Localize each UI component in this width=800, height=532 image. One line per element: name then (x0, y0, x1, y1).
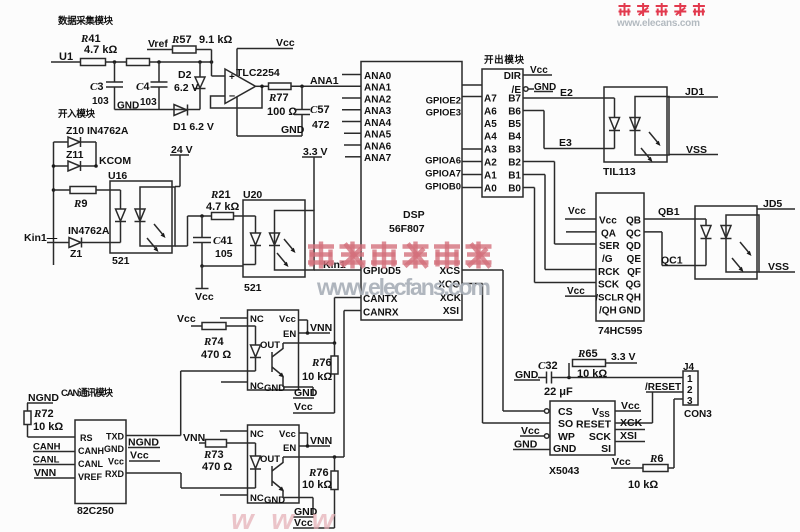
svg-text:开入模块: 开入模块 (58, 108, 95, 120)
wire TXD to opto1 cathode (126, 371, 181, 436)
pin A0 (484, 184, 497, 195)
wire feedback loop (211, 86, 263, 108)
node QB1 label (658, 206, 680, 218)
phototransistor U10 (272, 343, 284, 381)
node Vcc right (129, 450, 160, 462)
pin WP (558, 431, 575, 443)
pin 2 (687, 385, 693, 396)
resistor R76b label (302, 467, 332, 491)
svg-text:103: 103 (92, 96, 109, 107)
node Kin1 (24, 232, 58, 244)
pin QH (626, 293, 641, 304)
svg-text:IN4762A: IN4762A (68, 225, 110, 237)
wire GND path U11 (283, 498, 313, 516)
resistor R9 label (73, 198, 87, 210)
node VNN R73 (183, 432, 205, 444)
svg-text:DIR: DIR (504, 71, 522, 82)
op-amp U2 TLC2254 (225, 69, 256, 104)
node E3 label (559, 137, 572, 149)
svg-text:C57: C57 (310, 104, 330, 116)
pin /E (512, 85, 522, 96)
node Vref (147, 38, 173, 50)
pin A3 (484, 145, 497, 156)
wire GPIOA6 to A2 (462, 161, 482, 163)
svg-text:/QH: /QH (599, 305, 617, 316)
node Kin1 at DSP (323, 259, 346, 271)
wire B0 to SCK (523, 188, 596, 283)
svg-text:24 V: 24 V (171, 144, 193, 156)
node QC1 label (661, 255, 683, 267)
svg-text:Vcc: Vcc (521, 425, 540, 437)
optocoupler U20 arrows (277, 239, 296, 267)
svg-text:R74: R74 (203, 336, 224, 348)
wire Vcc-EN bracket U11 (299, 433, 330, 446)
optocoupler TIL113 LED1 (609, 98, 620, 149)
capacitor C3 label (90, 81, 109, 107)
node /RESET label (645, 382, 681, 393)
pin B1 (508, 171, 521, 182)
svg-text:GND: GND (553, 443, 577, 455)
pin SER (599, 241, 620, 252)
shift register U6 74HC595 body (596, 193, 644, 321)
svg-text:SCK: SCK (598, 280, 620, 291)
pin GPIOA6 (425, 156, 461, 167)
watermark center characters (308, 242, 492, 269)
pin GPIOE3 (426, 108, 461, 119)
diode D1 (174, 105, 188, 116)
svg-text:QD: QD (626, 241, 641, 252)
svg-text:GPIOE3: GPIOE3 (426, 108, 461, 119)
svg-text:NGND: NGND (128, 437, 159, 449)
resistor R73 (199, 440, 256, 448)
pin SCK (598, 280, 620, 291)
svg-text:A3: A3 (484, 145, 497, 156)
optocoupler U11 body (248, 425, 300, 503)
module label CAN通讯模块 (61, 387, 113, 399)
pin RCK (598, 267, 620, 278)
watchdog label X5043 (549, 465, 580, 477)
svg-text:开出模块: 开出模块 (484, 54, 524, 66)
wire op-amp ground (237, 97, 302, 136)
pin NC U10 top (250, 314, 264, 325)
node NGND right (128, 437, 160, 449)
pin Vss (592, 406, 610, 419)
power 3.3V label (611, 351, 636, 363)
svg-text:www: www (231, 504, 336, 532)
power Vcc R74 (177, 313, 202, 326)
wire CANRX (344, 311, 361, 458)
wire NC stub bottom U10 (221, 381, 248, 383)
pin OUT U10 (260, 340, 280, 351)
svg-text:Vcc: Vcc (108, 457, 124, 467)
capacitor C41 label (213, 235, 233, 260)
svg-text:NC: NC (250, 493, 264, 504)
pin /SCLR (596, 293, 625, 304)
svg-text:C41: C41 (213, 235, 233, 247)
wire GND path U10 (283, 381, 313, 396)
svg-text:D2: D2 (178, 69, 192, 81)
svg-text:10 kΩ: 10 kΩ (628, 479, 658, 491)
resistor R76b (331, 457, 338, 528)
svg-text:56F807: 56F807 (389, 223, 425, 235)
wire CANTX (335, 298, 362, 344)
svg-text:100 Ω: 100 Ω (267, 106, 297, 118)
svg-text:+: + (229, 72, 235, 83)
pin CS circle (544, 409, 549, 414)
ground label GND U10 (293, 387, 318, 399)
svg-text:A2: A2 (484, 158, 497, 169)
pin Vcc 82C250 (108, 457, 124, 467)
pin RXD (105, 469, 125, 479)
svg-text:OUT: OUT (260, 340, 280, 351)
wire R72 to RS (28, 436, 76, 438)
svg-text:XSI: XSI (620, 430, 637, 442)
pin QE (627, 254, 642, 265)
svg-text:3: 3 (687, 396, 693, 407)
svg-text:SCK: SCK (589, 431, 612, 443)
wire Z10-Z11 right (95, 142, 97, 166)
junction dot R21-C41 (200, 214, 204, 218)
resistor R76a label (302, 357, 332, 383)
svg-text:QC: QC (626, 228, 641, 239)
svg-text:VREF: VREF (78, 472, 103, 482)
svg-text:WP: WP (558, 431, 575, 443)
svg-text:R21: R21 (210, 189, 231, 201)
svg-text:Vcc: Vcc (130, 450, 149, 462)
pin A2 (484, 158, 497, 169)
resistor R41 label (80, 33, 117, 56)
svg-text:R76: R76 (311, 357, 332, 369)
svg-text:www.elecans.com: www.elecans.com (616, 18, 700, 29)
pin A4 (484, 132, 497, 143)
svg-text:10 kΩ: 10 kΩ (33, 421, 63, 433)
module label 开出模块 (484, 54, 524, 66)
svg-text:Vcc: Vcc (621, 400, 640, 412)
optocoupler TIL113 arrows (641, 132, 661, 162)
wire R57 to noninverting input (196, 50, 225, 77)
svg-text:ANA2: ANA2 (364, 94, 392, 105)
svg-text:GND: GND (104, 444, 125, 454)
junction dot node1 (113, 60, 117, 64)
optocoupler U16 type 521 (112, 255, 130, 267)
power Vcc SCLR (565, 286, 596, 297)
resistor R77 (269, 83, 292, 90)
svg-text:TXD: TXD (106, 432, 125, 442)
svg-text:GPIOA6: GPIOA6 (425, 156, 461, 167)
svg-text:4.7 kΩ: 4.7 kΩ (206, 201, 239, 213)
pin B4 (508, 132, 521, 143)
svg-text:XCK: XCK (620, 417, 643, 429)
optocoupler U16 LED1 (115, 190, 126, 243)
pin ANA6 (344, 141, 392, 152)
pin /QH (599, 305, 617, 316)
svg-text:B1: B1 (508, 171, 521, 182)
pin GND U10 (264, 383, 285, 394)
pin A5 (484, 119, 497, 130)
resistor R74 label (201, 336, 231, 361)
svg-text:GPIOB0: GPIOB0 (425, 182, 461, 193)
logo top-right text (619, 3, 705, 16)
svg-text:R76: R76 (308, 467, 329, 479)
resistor R72 (24, 403, 31, 437)
zener Z11 label (66, 149, 84, 161)
svg-text:JD5: JD5 (763, 198, 782, 210)
power Vcc DIR (523, 65, 552, 76)
capacitor C32 label (538, 360, 573, 398)
connector J4 label (683, 362, 695, 373)
svg-text:CON3: CON3 (684, 409, 712, 420)
svg-text:Vcc: Vcc (276, 37, 295, 49)
svg-text:ANA0: ANA0 (364, 71, 392, 82)
pin GPIOA7 (425, 169, 461, 180)
ground GND X5043 (513, 439, 550, 451)
svg-text:VNN: VNN (34, 467, 56, 479)
svg-text:QC1: QC1 (661, 255, 683, 267)
node JD5 label (763, 198, 782, 210)
watermark bottom strokes (231, 504, 336, 532)
wire XCS to X5043 CS (462, 270, 503, 411)
wire VSS TIL113 (669, 154, 718, 156)
junction dot KCOM (94, 164, 98, 168)
svg-text:82C250: 82C250 (77, 505, 114, 517)
svg-text:QH: QH (626, 293, 641, 304)
svg-text:JD1: JD1 (685, 86, 704, 98)
optocoupler U20 label (243, 189, 262, 201)
svg-text:103: 103 (140, 97, 157, 108)
node JD1 label (685, 86, 704, 98)
pin Vcc U10 (279, 314, 296, 325)
svg-text:Vcc: Vcc (294, 517, 313, 529)
svg-text:R77: R77 (268, 92, 289, 104)
svg-text:ANA6: ANA6 (364, 141, 392, 152)
svg-text:TLC2254: TLC2254 (236, 67, 280, 79)
svg-text:A5: A5 (484, 119, 497, 130)
node VNN label (34, 467, 75, 479)
svg-text:Vcc: Vcc (177, 313, 196, 325)
svg-text:Vref: Vref (148, 38, 168, 50)
pin B5 (508, 119, 521, 130)
power Vcc bar (195, 266, 214, 303)
zener Z1 designator (70, 248, 82, 260)
wire ground rail (115, 109, 201, 111)
wire B2 to SER (523, 162, 596, 245)
svg-text:ANA1: ANA1 (310, 75, 339, 87)
svg-text:4.7 kΩ: 4.7 kΩ (84, 44, 117, 56)
junction dot C32-R65 (567, 376, 571, 380)
svg-text:E2: E2 (560, 87, 573, 99)
wire Kin1 to GPIOD5 (314, 269, 361, 271)
junction dot node3 (198, 60, 202, 64)
svg-text:NC: NC (250, 314, 264, 325)
junction dot OUT U11 (333, 455, 337, 459)
resistor R65 label (577, 348, 607, 380)
svg-text:EN: EN (283, 329, 296, 340)
optocoupler U16 arrows (147, 224, 166, 252)
svg-text:Z10 IN4762A: Z10 IN4762A (66, 125, 129, 137)
svg-text:ANA5: ANA5 (364, 130, 392, 141)
zener Z1 (47, 238, 121, 248)
optocoupler U20 body (243, 200, 314, 277)
svg-text:SI: SI (601, 443, 611, 455)
optocoupler TIL113 label (603, 166, 636, 178)
svg-text:CANL: CANL (78, 459, 103, 469)
op-amp label TLC2254 (236, 67, 280, 79)
pin ANA1 (364, 83, 392, 94)
resistor R6 label (628, 453, 663, 491)
svg-text:R9: R9 (73, 198, 87, 210)
pin ANA4 (342, 118, 392, 129)
pin B0 (508, 184, 521, 195)
junction dot EN U11 (306, 444, 310, 448)
junction dot OUT U10 (333, 341, 337, 345)
svg-text:10 kΩ: 10 kΩ (577, 368, 607, 380)
pin CANRX (363, 308, 399, 319)
pin XCO (438, 280, 460, 291)
wire QB1 (644, 218, 706, 220)
node ANA1 label (310, 75, 339, 87)
svg-text:www.elecfans.com: www.elecfans.com (316, 274, 491, 300)
svg-text:NGND: NGND (28, 392, 59, 404)
svg-text:VSS: VSS (686, 144, 707, 156)
pin GPIOD5 (363, 266, 401, 277)
pin SO (558, 418, 573, 430)
wire DSP to buffer upper (462, 84, 482, 86)
power Vcc WP (520, 425, 544, 437)
wire QA stub (566, 231, 596, 233)
wire main rail (150, 61, 212, 63)
svg-text:521: 521 (112, 255, 130, 267)
junction dot C57 (300, 85, 304, 89)
wire OUT U11 (283, 456, 344, 458)
power Vcc op-amp (237, 37, 295, 76)
svg-text:Vcc: Vcc (279, 314, 296, 325)
wire NC stub top U10 (220, 317, 248, 319)
svg-text:B4: B4 (508, 132, 521, 143)
wire SO from XCO (483, 422, 551, 424)
power Vcc 595 top (565, 206, 596, 219)
node VSS label (686, 144, 707, 156)
resistor R21 (212, 213, 256, 220)
svg-text:KCOM: KCOM (99, 155, 131, 167)
svg-text:B6: B6 (508, 107, 521, 118)
optocoupler U7 LED2 (721, 226, 732, 239)
capacitor C41 (193, 216, 211, 266)
optocoupler U20 type 521 (244, 282, 262, 294)
svg-text:GND: GND (619, 305, 641, 316)
svg-text:数据采集模块: 数据采集模块 (57, 15, 113, 27)
svg-text:R73: R73 (203, 449, 224, 461)
svg-text:QB1: QB1 (658, 206, 680, 218)
svg-text:6.2 V: 6.2 V (174, 82, 199, 94)
pin QF (627, 267, 641, 278)
resistor R21 label (206, 189, 239, 213)
svg-text:22 μF: 22 μF (544, 386, 573, 398)
svg-text:J4: J4 (683, 362, 695, 373)
svg-text:RCK: RCK (598, 267, 620, 278)
svg-text:470 Ω: 470 Ω (202, 461, 232, 473)
wire left rail (53, 142, 55, 265)
svg-text:OUT: OUT (260, 454, 280, 465)
pin OUT U11 (260, 454, 280, 465)
svg-text:NC: NC (250, 381, 264, 392)
transceiver label 82C250 (77, 505, 114, 517)
power 24V (170, 144, 193, 187)
power label Vcc U10 (293, 401, 335, 413)
pin GND 595 (619, 305, 641, 316)
svg-text:GPIOA7: GPIOA7 (425, 169, 461, 180)
pin EN U11 (283, 443, 296, 454)
optocoupler U16 LED2 (135, 209, 146, 222)
ground label GND U11 (293, 506, 318, 518)
pin ANA5 (344, 130, 392, 141)
capacitor C32 (547, 372, 684, 384)
wire NC stub bottom U11 (220, 494, 248, 496)
svg-text:CANH: CANH (78, 446, 104, 456)
wire ANA1 (291, 85, 361, 87)
svg-text:DSP: DSP (403, 209, 425, 221)
pin TXD (106, 432, 125, 442)
svg-text:CAN通讯模块: CAN通讯模块 (61, 387, 113, 399)
wire JD5 (757, 208, 795, 210)
zener Z10 (54, 137, 97, 147)
svg-text:Z1: Z1 (70, 248, 82, 260)
power Vcc R6 (611, 456, 643, 468)
ground label GND (117, 101, 139, 112)
junction dot output (260, 85, 264, 89)
DSP U3 56F807 body (361, 62, 462, 321)
pin QB (626, 216, 641, 227)
capacitor C57 label (310, 104, 330, 131)
svg-text:74HC595: 74HC595 (598, 325, 643, 337)
svg-text:A6: A6 (484, 107, 497, 118)
optocoupler U7 body (695, 206, 759, 279)
buffer U4 74HC245 body (482, 69, 523, 197)
node VSS U7 label (768, 261, 789, 273)
wire J4 pin3 to R6 (668, 399, 683, 468)
wire VSS U7 (759, 271, 795, 273)
svg-text:521: 521 (244, 282, 262, 294)
wire B1 to RCK (523, 175, 596, 270)
svg-text:VSS: VSS (768, 261, 789, 273)
pin ANA2 (342, 94, 392, 105)
pin QA (601, 228, 616, 239)
svg-text:C32: C32 (538, 360, 558, 372)
pin CANL (78, 459, 103, 469)
pin CANH (78, 446, 104, 456)
pin Vcc U11 (279, 429, 296, 440)
resistor R76a (331, 343, 338, 413)
svg-text:GND: GND (281, 124, 305, 136)
wire NC stub top U11 (220, 430, 248, 432)
junction dot EN U10 (306, 331, 310, 335)
svg-text:C3: C3 (90, 81, 103, 93)
wire RESET to J4 (615, 392, 683, 423)
ground label GND C32 (514, 369, 547, 381)
svg-text:9.1 kΩ: 9.1 kΩ (199, 34, 232, 46)
svg-text:R57: R57 (171, 34, 192, 46)
optocoupler U20 LED2 (269, 233, 280, 246)
power label Vcc U11 (293, 517, 335, 529)
pin B7 (508, 94, 521, 105)
module label 开入模块 (58, 108, 95, 120)
svg-text:QE: QE (627, 254, 642, 265)
junction dot C41 bottom (200, 264, 204, 268)
node E2 label (560, 87, 573, 99)
wire LED cathode U10 (181, 370, 256, 372)
wire GPIOA7 to A1 (462, 174, 482, 176)
pin A7 (484, 94, 497, 105)
phototransistor U11 (272, 457, 284, 498)
